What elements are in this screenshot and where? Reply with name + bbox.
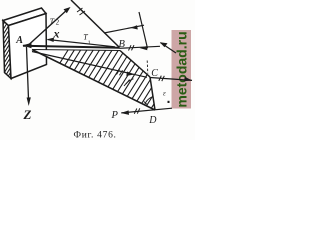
force P line with arrow and ticks bbox=[121, 108, 172, 113]
svg-text:A: A bbox=[15, 35, 23, 46]
z-axis line with arrow bbox=[27, 47, 29, 99]
tension T1 vector bbox=[48, 40, 116, 47]
dashed vertical at C bbox=[146, 61, 149, 74]
svg-text:x: x bbox=[53, 27, 60, 41]
line A to C with arrow and cut ticks bbox=[32, 52, 147, 78]
svg-text:Фиг. 476.: Фиг. 476. bbox=[74, 131, 117, 141]
wall: hatched left face bbox=[1, 0, 13, 88]
wall: front face bbox=[9, 14, 47, 79]
quad edges bbox=[32, 50, 120, 51]
wall: top face bbox=[3, 8, 46, 26]
string at top right with small arrow bbox=[104, 25, 144, 33]
vertical string above B junction bbox=[139, 12, 148, 48]
force arrow near right edge bbox=[161, 43, 177, 53]
string from B to upper left bbox=[71, 0, 120, 48]
svg-text:metodad.ru: metodad.ru bbox=[174, 31, 190, 107]
svg-text:P: P bbox=[111, 110, 119, 121]
angle arc near C bbox=[124, 79, 134, 86]
tension T2 vector bbox=[29, 9, 68, 45]
svg-text:Z: Z bbox=[23, 107, 32, 122]
svg-text:C: C bbox=[151, 68, 158, 79]
svg-text:2: 2 bbox=[56, 19, 60, 27]
svg-text:ε: ε bbox=[163, 90, 166, 98]
tension line at C with ticks and arrow bbox=[150, 78, 192, 81]
watermark strip metodad.ru bbox=[172, 30, 192, 109]
svg-text:B: B bbox=[119, 39, 126, 50]
svg-text:T: T bbox=[50, 17, 55, 26]
x-axis shaft B to A bbox=[23, 46, 120, 48]
tension line at B with ticks and arrow bbox=[120, 46, 161, 48]
angle arc at D bbox=[145, 97, 152, 105]
plate ABCD (hatched) bbox=[23, 44, 210, 122]
svg-text:1: 1 bbox=[88, 40, 91, 46]
svg-text:D: D bbox=[148, 115, 157, 126]
x-axis arrowhead at A bbox=[22, 43, 31, 48]
